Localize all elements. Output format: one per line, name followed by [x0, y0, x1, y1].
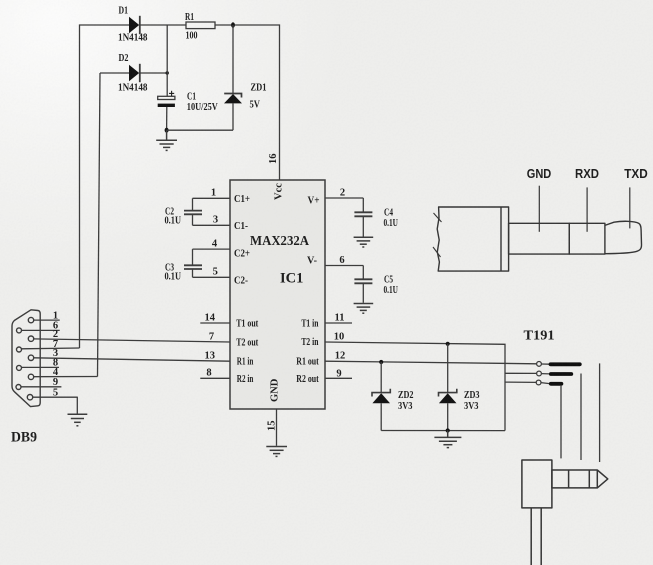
pin 9 stub R2 out: [325, 377, 352, 379]
wire C1 to ground node: [166, 107, 168, 130]
wire from bar3 down to plug: [560, 386, 562, 459]
DB9 hole pin4: [28, 374, 33, 379]
contact bar 1: [551, 362, 580, 366]
capacitor C2: [184, 198, 202, 225]
ground under C5: [354, 304, 374, 314]
node R1out line / ZD2: [379, 360, 383, 364]
contact circle 1: [537, 362, 542, 367]
pin 5 wire C2-: [193, 276, 231, 278]
wire D2 branch: [100, 72, 129, 74]
pin 8 stub R2 in: [200, 377, 230, 379]
op-amp IC1 MAX232A body: [230, 180, 325, 409]
wire DB9 pin1: [34, 319, 60, 321]
pin 14 stub T1 out: [200, 322, 230, 324]
pin 11 stub T1 in: [325, 322, 352, 324]
ground under DB9 pin5: [68, 414, 88, 426]
zener ZD1 anode/cathode wires: [232, 25, 234, 93]
audio jack body: [437, 207, 508, 271]
connector DB9 outline: [12, 310, 40, 407]
wire ground node to ZD1 bottom: [167, 129, 233, 131]
ground under C4: [354, 237, 374, 247]
DB9 hole pin3: [28, 355, 33, 360]
capacitor C5: [354, 266, 372, 303]
pin 1 wire C1+: [193, 197, 231, 199]
capacitor C3: [184, 249, 202, 277]
wire D1 to R1: [140, 24, 186, 26]
wire riser DB9 pin4 to D2: [98, 73, 101, 377]
node T2in line / ZD3: [446, 342, 450, 346]
leader line GND: [538, 186, 540, 232]
wire branch to tip contact circle 2: [505, 372, 537, 374]
wire DB9 pin9: [21, 386, 61, 388]
contact circle 3: [536, 380, 541, 385]
pin 15 GND wire: [276, 409, 278, 446]
capacitor C4: [354, 198, 372, 237]
node junction top rail / ZD1: [231, 22, 235, 28]
stub circle3 to bar3: [541, 383, 550, 384]
DB9 hole pin6: [17, 328, 22, 333]
DB9 hole pin1: [28, 317, 33, 322]
capacitor C1 plus sign: [169, 91, 174, 96]
capacitor C1 bottom plate: [158, 104, 175, 107]
zener ZD1 triangle: [224, 94, 242, 103]
leader line TXD: [629, 187, 631, 228]
audio jack tip: [605, 221, 642, 253]
zener ZD2: [372, 362, 390, 431]
leader line RXD: [586, 187, 588, 231]
phone plug body: [522, 460, 552, 508]
diode D2 cathode bar: [139, 64, 141, 82]
diode D1: [129, 17, 139, 33]
wire D2 to C1 node: [140, 72, 168, 74]
wire from bar2 down to plug: [580, 374, 582, 461]
node ground bus / ZD3: [446, 428, 450, 432]
DB9 hole pin8: [17, 365, 22, 370]
wire DB9 pin5 to ground: [33, 397, 78, 414]
wire top rail down to C1: [166, 25, 168, 96]
wire DB9 pin8: [22, 366, 60, 368]
diode D2: [129, 65, 139, 81]
pin 3 wire C1-: [193, 224, 231, 226]
DB9 hole pin9: [16, 385, 21, 390]
wire DB9 pin4 to riser: [34, 376, 98, 378]
phone plug cable: [530, 508, 532, 565]
DB9 hole pin2: [28, 336, 33, 341]
wire top rail from DB9 pin7 riser to R1: [80, 25, 130, 348]
ground under pin 15: [266, 447, 287, 457]
wire DB9 pin7 to riser: [22, 347, 80, 350]
wire DB9 pin6: [22, 329, 60, 331]
phone plug barrel divider 1: [568, 470, 570, 488]
wire IC pin12 R1 out to contact circle 1: [325, 361, 537, 364]
pin 4 wire C2+: [193, 248, 231, 250]
wire IC pin10 T2 in to connector: [325, 342, 505, 431]
contact circle 2: [537, 371, 542, 376]
wire from bar1 down to plug: [599, 363, 601, 462]
ground under C1: [156, 130, 177, 150]
diode D1 cathode bar: [139, 16, 141, 34]
node C1 ground junction: [165, 128, 169, 133]
wire DB9 pin2 to IC pin7: [34, 339, 231, 342]
zener ZD3: [439, 344, 457, 431]
pin 2 wire V+: [325, 197, 363, 199]
zener ZD1 cathode bar: [224, 94, 241, 98]
node D2 / C1 junction: [166, 71, 169, 74]
resistor R1: [186, 22, 215, 29]
wire ground bus under zeners: [381, 430, 505, 432]
stub circle1 to bar1: [541, 363, 549, 365]
contact bar 2: [551, 372, 572, 376]
wire R1 to pin16 corner: [215, 25, 280, 180]
phone plug barrel divider 2: [588, 470, 590, 488]
wire branch to sleeve contact circle 3: [505, 381, 536, 383]
DB9 hole pin7: [17, 347, 22, 352]
audio jack ring segment: [569, 223, 605, 254]
audio jack barrel sleeve: [509, 223, 570, 254]
phone plug tip: [597, 470, 608, 488]
jack body tear marks: [433, 213, 442, 257]
wire DB9 pin3 to IC pin13: [34, 358, 231, 361]
ground under zener bus: [434, 431, 461, 448]
phone plug barrel: [552, 470, 597, 488]
stub circle2 to bar2: [541, 373, 549, 375]
audio jack flange line: [500, 207, 502, 271]
pin 6 wire V-: [325, 265, 363, 267]
capacitor C1 top plate: [158, 96, 175, 99]
DB9 hole pin5: [27, 395, 32, 400]
contact bar 3: [551, 382, 562, 386]
